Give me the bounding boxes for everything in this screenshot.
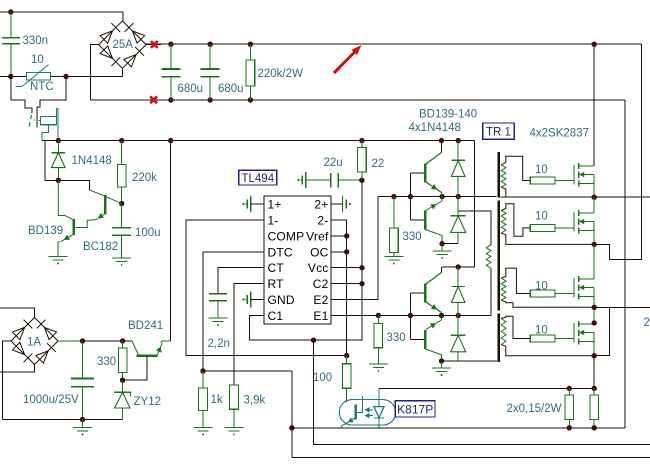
svg-text:22u: 22u [324, 157, 343, 169]
svg-text:BD139: BD139 [28, 225, 63, 237]
svg-text:330n: 330n [23, 35, 49, 47]
svg-text:220k/2W: 220k/2W [258, 68, 304, 80]
svg-text:2x0,15/2W: 2x0,15/2W [507, 403, 562, 415]
svg-text:Vref: Vref [306, 229, 329, 243]
svg-text:BC182: BC182 [83, 241, 118, 253]
svg-text:NTC: NTC [30, 81, 54, 93]
svg-text:1-: 1- [268, 214, 279, 228]
svg-text:E2: E2 [313, 293, 328, 307]
svg-text:220k: 220k [132, 172, 157, 184]
svg-text:1A: 1A [27, 337, 41, 349]
svg-text:2: 2 [644, 317, 650, 329]
svg-text:10: 10 [535, 211, 548, 223]
svg-text:330: 330 [387, 332, 406, 344]
svg-text:3,9k: 3,9k [244, 395, 266, 407]
svg-text:4x2SK2837: 4x2SK2837 [530, 128, 589, 140]
svg-text:330: 330 [403, 231, 422, 243]
svg-text:DTC: DTC [268, 245, 293, 259]
svg-text:10: 10 [31, 54, 44, 66]
svg-text:1N4148: 1N4148 [72, 155, 112, 167]
svg-text:OC: OC [310, 245, 329, 259]
svg-text:680u: 680u [178, 83, 204, 95]
svg-text:1000u/25V: 1000u/25V [23, 394, 79, 406]
svg-text:K817P: K817P [397, 403, 433, 417]
svg-text:4x1N4148: 4x1N4148 [409, 122, 461, 134]
svg-text:100u: 100u [135, 227, 161, 239]
svg-text:10: 10 [535, 325, 548, 337]
svg-text:RT: RT [268, 277, 285, 291]
svg-text:CT: CT [268, 261, 285, 275]
svg-text:1k: 1k [211, 394, 223, 406]
svg-text:22: 22 [372, 158, 385, 170]
svg-text:BD241: BD241 [128, 320, 163, 332]
svg-text:Vcc: Vcc [308, 261, 329, 275]
svg-text:10: 10 [535, 281, 548, 293]
svg-text:E1: E1 [313, 309, 328, 323]
svg-text:TR 1: TR 1 [486, 127, 511, 139]
svg-text:GND: GND [268, 293, 295, 307]
svg-text:2,2n: 2,2n [208, 338, 230, 350]
svg-text:100: 100 [313, 372, 332, 384]
svg-text:2-: 2- [317, 214, 328, 228]
svg-text:C2: C2 [313, 277, 329, 291]
svg-text:2+: 2+ [314, 198, 328, 212]
svg-text:330: 330 [97, 356, 116, 368]
svg-text:C1: C1 [268, 309, 284, 323]
svg-text:680u: 680u [218, 83, 244, 95]
svg-text:ZY12: ZY12 [134, 396, 162, 408]
svg-text:10: 10 [535, 164, 548, 176]
svg-text:TL494: TL494 [241, 173, 274, 185]
svg-text:1+: 1+ [268, 198, 282, 212]
svg-text:COMP: COMP [268, 229, 305, 243]
svg-text:25A: 25A [113, 39, 134, 51]
svg-text:BD139-140: BD139-140 [419, 109, 477, 121]
